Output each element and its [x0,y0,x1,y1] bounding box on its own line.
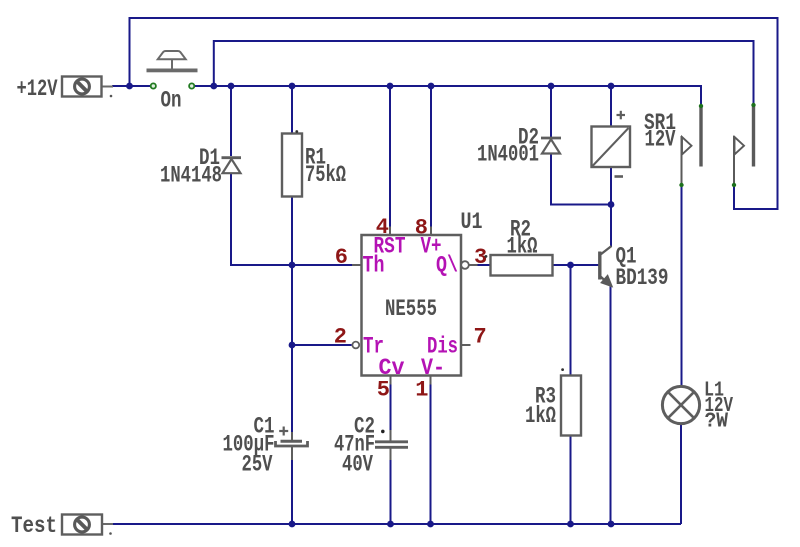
junction node Q1 emitter ground [608,521,615,528]
svg-text:8: 8 [415,216,428,241]
junction node C1 ground [289,521,296,528]
connector Test [11,513,113,539]
junction node Tr [289,342,296,349]
wire pin4 RST [389,86,391,228]
relay contact 1 [679,104,703,187]
IC U1 NE555 [352,209,483,385]
svg-text:?W: ?W [705,410,729,434]
junction node R1 top [289,83,296,90]
wire Q output to R2 [477,264,491,266]
resistor R3 1k [525,368,581,435]
svg-text:1N4148: 1N4148 [160,163,222,189]
junction node pin1 ground [427,521,434,528]
svg-text:Th: Th [363,253,385,279]
junction node Th [289,262,296,269]
relay contact 2 [732,103,756,187]
wire Tr to node [292,344,352,346]
junction node pin8 rail [428,83,435,90]
connector +12V [17,76,114,102]
svg-text:+12V: +12V [17,76,58,102]
resistor R2 1k [485,217,553,276]
junction node D1 top [228,83,235,90]
svg-text:NE555: NE555 [385,296,437,322]
wire R3 branch [570,265,572,524]
wire D2 branch [551,86,611,205]
wire R2 to Q1 base [553,264,599,266]
junction node at switch right [210,83,217,90]
svg-text:7: 7 [474,325,487,350]
wire pin1 V- to ground rail [430,382,432,524]
capacitor C2 47nF [334,414,408,478]
svg-text:5: 5 [377,378,390,403]
svg-text:U1: U1 [461,209,483,235]
svg-text:4: 4 [376,215,389,240]
wire lamp branch [680,186,683,524]
svg-text:On: On [161,88,182,114]
svg-text:1kΩ: 1kΩ [525,403,556,429]
svg-text:75kΩ: 75kΩ [305,162,346,188]
wire relay coil branch [610,86,613,524]
switch On (push button) [147,51,198,114]
wire ground rail [112,523,681,525]
svg-text:BD139: BD139 [616,265,669,291]
svg-text:1kΩ: 1kΩ [507,234,538,260]
junction node D2 top [548,83,555,90]
lamp L1 [662,379,733,434]
relay coil SR1 [592,110,677,177]
junction node relay top [608,83,615,90]
wire second latch bus [214,41,754,104]
svg-text:1: 1 [415,378,428,403]
wire pin5 Cv to C2 [390,382,392,524]
diode D2 1N4001 [477,125,561,168]
svg-text:12V: 12V [645,127,676,153]
wire D1 branch to Th [231,86,352,265]
svg-text:2: 2 [334,325,347,350]
diode D1 1N4148 [160,145,241,189]
junction node relay-collector [608,201,615,208]
svg-text:40V: 40V [342,452,373,478]
wire main +12V rail [112,86,701,105]
svg-text:6: 6 [335,245,348,270]
resistor R1 75k [282,130,346,196]
junction node R3 ground [567,521,574,528]
wire R1 branch [291,86,293,524]
junction node pin4 rail [387,83,394,90]
svg-text:25V: 25V [242,452,273,478]
svg-text:Test: Test [11,513,57,539]
svg-text:Q\: Q\ [436,253,458,279]
junction node C2 ground [387,521,394,528]
transistor Q1 BD139 [600,244,669,292]
svg-text:1N4001: 1N4001 [477,142,539,168]
wire top latch bus [130,18,778,209]
capacitor C1 100uF [223,414,308,478]
junction node at switch left [126,83,133,90]
junction node R2-R3-base [567,262,574,269]
wire pin8 V+ [430,86,432,228]
